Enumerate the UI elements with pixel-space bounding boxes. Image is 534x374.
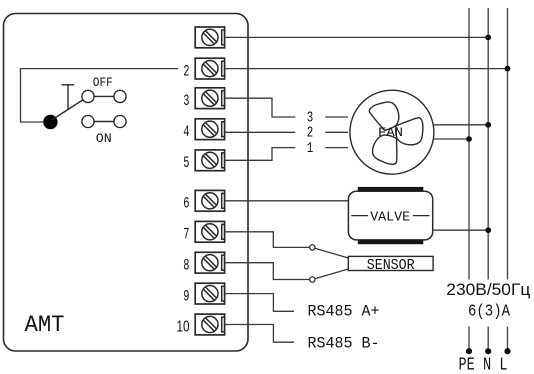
- svg-text:2: 2: [307, 126, 314, 142]
- power rail N bottom stub: [487, 327, 489, 351]
- svg-text:SENSOR: SENSOR: [367, 258, 415, 274]
- junction dot rail L / terminal 2: [505, 66, 511, 72]
- wire terminal 9 RS485 A+: [225, 294, 294, 312]
- valve left dash: [351, 215, 368, 217]
- fan lead 2: [325, 131, 348, 133]
- fan blades: [350, 90, 434, 174]
- terminal 4 screw block: [195, 119, 224, 140]
- terminal 6 screw block: [195, 190, 224, 211]
- wire terminal 1 to rail N: [225, 36, 488, 38]
- terminal 9 screw block: [195, 283, 224, 304]
- junction dot rail N / terminal 1: [485, 35, 491, 41]
- svg-text:7: 7: [183, 226, 189, 244]
- junction dot rail N / fan: [485, 122, 491, 128]
- wire terminal 8 to sensor contact: [225, 263, 310, 280]
- power rail L end dot: [504, 348, 510, 354]
- wire terminal 4 to fan speed 2: [225, 131, 295, 133]
- power rail PE end dot: [466, 348, 472, 354]
- power rail N (vertical): [487, 8, 489, 280]
- svg-text:PE N L: PE N L: [459, 354, 508, 374]
- sensor contact circle upper: [310, 245, 315, 250]
- wire terminal 5 to fan speed 1: [225, 148, 295, 161]
- svg-text:6(3)А: 6(3)А: [468, 302, 510, 321]
- svg-text:3: 3: [307, 110, 314, 126]
- sensor body: [348, 256, 433, 270]
- power rail L (vertical): [507, 8, 509, 280]
- power rail L bottom stub: [507, 327, 509, 351]
- svg-text:1: 1: [307, 141, 314, 157]
- valve top bar: [358, 187, 424, 191]
- fan lead 1: [325, 147, 348, 149]
- wire terminal 2 to switch pole: [21, 69, 179, 122]
- svg-text:ON: ON: [96, 131, 112, 146]
- svg-text:OFF: OFF: [93, 75, 113, 90]
- svg-text:3: 3: [183, 92, 189, 110]
- wire fan to rail N: [434, 124, 488, 126]
- terminal 1 screw block: [195, 27, 224, 48]
- fan lead 3: [325, 116, 348, 118]
- switch actuator T mark: [62, 85, 75, 110]
- svg-text:8: 8: [183, 257, 189, 275]
- power rail N end dot: [485, 348, 491, 354]
- junction dot rail N / valve: [485, 227, 491, 233]
- svg-text:5: 5: [183, 154, 189, 172]
- svg-text:FAN: FAN: [378, 125, 403, 140]
- valve body: [348, 191, 432, 240]
- terminal 10 screw block: [195, 314, 224, 335]
- switch ON contact pair: [82, 115, 126, 127]
- wire valve to rail N: [433, 229, 489, 231]
- wire terminal 7 to sensor contact: [225, 232, 310, 248]
- switch pole (common, filled): [43, 115, 57, 129]
- terminal 3 screw block: [195, 88, 224, 109]
- wire terminal 2 to rail L: [225, 68, 508, 70]
- valve bottom bar: [358, 240, 424, 244]
- power rail PE (vertical): [468, 8, 470, 280]
- sensor contact circle lower: [310, 277, 315, 282]
- wire fan to rail PE: [434, 138, 469, 140]
- wire terminal 10 RS485 B-: [225, 325, 294, 343]
- svg-text:4: 4: [183, 123, 189, 141]
- terminal 2 screw block: [195, 58, 224, 79]
- valve right dash: [413, 215, 430, 217]
- junction dot rail PE / fan: [466, 136, 472, 142]
- controller box AMT outline: [4, 14, 249, 352]
- svg-text:AMT: AMT: [25, 312, 65, 339]
- wire terminal 3 to fan speed 3: [225, 98, 295, 117]
- svg-text:6: 6: [183, 195, 189, 213]
- svg-text:9: 9: [183, 288, 189, 306]
- sensor lead lower diagonal: [315, 269, 348, 279]
- svg-text:RS485 B-: RS485 B-: [308, 334, 380, 352]
- power rail PE bottom stub: [468, 327, 470, 351]
- svg-text:RS485 A+: RS485 A+: [308, 302, 380, 320]
- terminal 8 screw block: [195, 252, 224, 273]
- svg-text:10: 10: [177, 318, 190, 335]
- sensor lead upper diagonal: [315, 248, 348, 258]
- switch OFF contact pair: [82, 90, 126, 102]
- svg-text:2: 2: [183, 63, 189, 81]
- svg-text:230В/50Гц: 230В/50Гц: [446, 281, 530, 299]
- wire terminal 6 to valve: [225, 200, 348, 202]
- switch lever arm: [53, 99, 86, 120]
- terminal 5 screw block: [195, 150, 224, 171]
- svg-text:VALVE: VALVE: [370, 209, 410, 225]
- terminal 7 screw block: [195, 221, 224, 242]
